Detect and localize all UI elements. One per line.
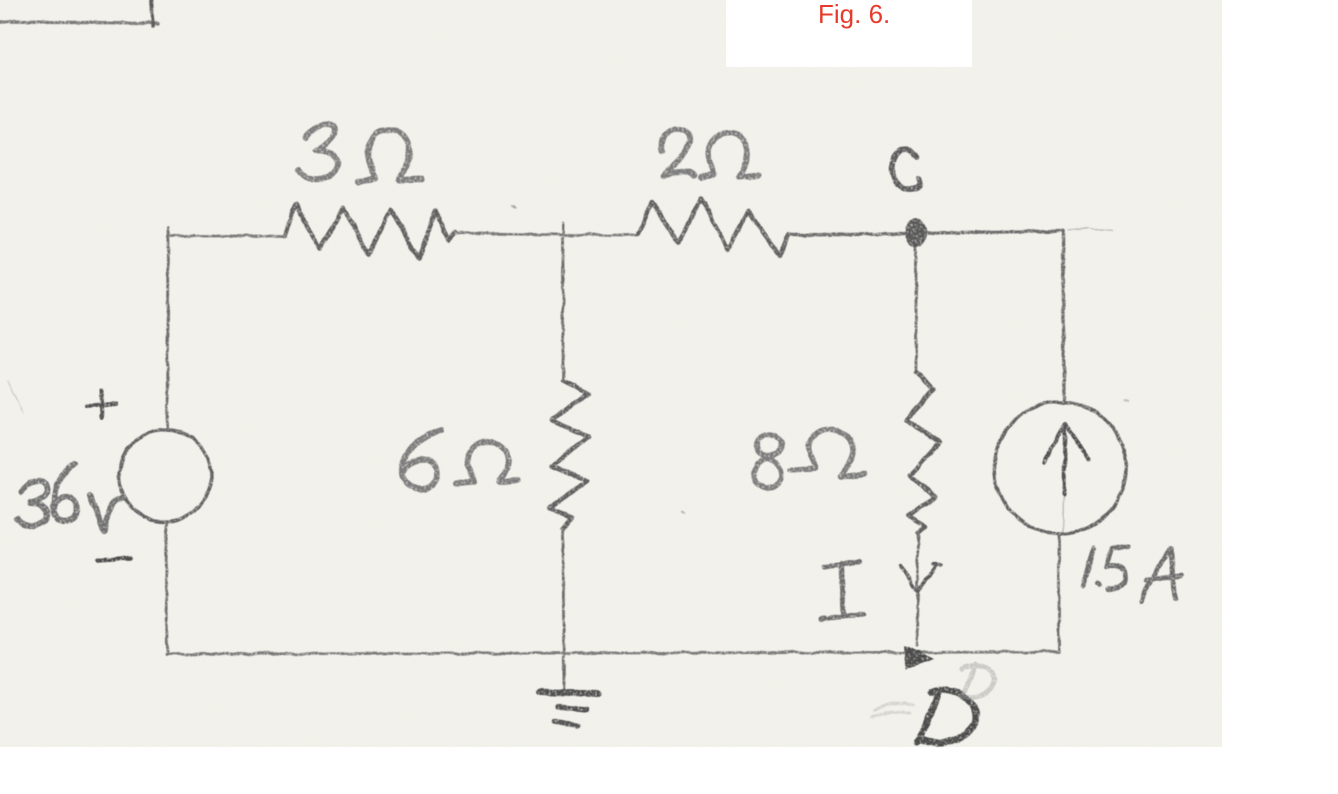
faint pencil overshoot right of corner [1068, 228, 1113, 231]
wire left vertical (top) [167, 228, 168, 430]
current source arrow [1044, 424, 1089, 494]
node C junction dot [905, 219, 927, 247]
wire left vertical (bottom) [166, 522, 167, 655]
wire right vertical below current source [1058, 535, 1061, 652]
wire top-middle segment (3Ω to node B / 6Ω tap) [455, 233, 563, 235]
faint scratch top-left of source [8, 380, 23, 412]
wire 8Ω branch lower [917, 533, 918, 646]
label node C [892, 150, 919, 189]
wire middle vertical below 6Ω to ground stub [563, 529, 564, 689]
resistor 3Ω zigzag [284, 204, 455, 259]
faint shaft continuation inside circle [1063, 496, 1064, 534]
wire 8Ω branch upper [915, 246, 918, 372]
current source I1 circle [994, 402, 1126, 534]
faint erased scribble left of D [872, 704, 914, 717]
label 2Ω [662, 129, 693, 177]
label I [821, 562, 864, 619]
plus sign of source [86, 391, 117, 418]
stray speck near current source [1125, 400, 1128, 401]
wire bottom rail [167, 652, 1059, 654]
white label patch behind Fig. 6. [726, 0, 972, 67]
label 8Ω [754, 435, 782, 488]
label 1.5A [1083, 548, 1094, 585]
minus sign of source [97, 558, 130, 560]
voltage source V1 circle [119, 430, 211, 522]
stray pencil speck above top wire [512, 206, 516, 208]
resistor 6Ω zigzag [549, 381, 589, 529]
wire segment (2Ω to node C) [788, 234, 905, 235]
wire segment (6Ω tap to resistor 2Ω) [563, 234, 638, 237]
wire right vertical above current source [1063, 231, 1064, 402]
wire middle vertical above 6Ω [562, 224, 565, 381]
stray speck mid page [683, 512, 685, 513]
ghost erased D [962, 664, 994, 697]
fragment of previous figure: vertical wire stub top-left [152, 0, 153, 26]
fragment of previous figure: horizontal wire top-left [0, 22, 158, 23]
current direction arrow on 8Ω branch [900, 563, 941, 591]
label 3Ω [299, 124, 337, 179]
label 6Ω [402, 431, 441, 489]
wire segment (node C to top-right corner) [927, 231, 1063, 233]
ground symbol [539, 692, 598, 694]
resistor 2Ω zigzag [638, 198, 788, 256]
node D arrowhead [904, 645, 935, 670]
wire top-left segment (node A area to resistor 3Ω) [168, 235, 284, 238]
resistor 8Ω zigzag [906, 372, 940, 533]
svg-text:Fig. 6.: Fig. 6. [818, 0, 890, 29]
label node D (dark) [917, 690, 977, 743]
label 36V [17, 481, 48, 526]
